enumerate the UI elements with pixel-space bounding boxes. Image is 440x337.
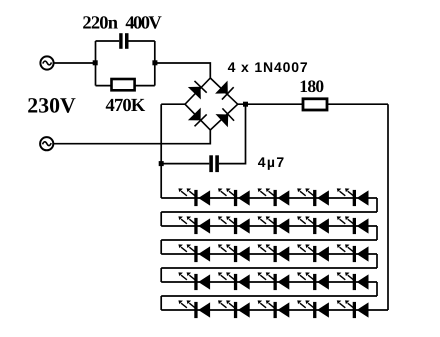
wire AC2 to bridge bottom <box>54 130 211 144</box>
bridge diamond wires <box>185 78 238 130</box>
LED D19 row3 <box>337 244 369 262</box>
wire DC- node to smoothing cap <box>161 163 209 165</box>
LED D9 row1 <box>337 188 369 206</box>
wire LED row 1 <box>161 197 377 199</box>
LED D22 row4 <box>258 272 290 290</box>
AC source top terminal G1 <box>40 56 53 69</box>
junction node DC- at smoothing cap <box>159 161 164 166</box>
junction node left of RC loop <box>93 60 98 65</box>
LED D18 row3 <box>297 244 329 262</box>
LED D24 row4 <box>337 272 369 290</box>
LED D28 row5 <box>297 300 329 318</box>
LED D6 row1 <box>218 188 250 206</box>
AC source bottom terminal G2 <box>40 137 53 150</box>
bridge diode D1 (left-top edge) <box>188 81 207 100</box>
wire right link row4-row5 <box>376 282 378 296</box>
LED D10 row2 <box>178 216 210 234</box>
wire LED row 5 <box>161 309 388 311</box>
LED D25 row5 <box>178 300 210 318</box>
wire LED row 2 <box>161 225 377 227</box>
wire right link row2-row3 <box>376 226 378 240</box>
wire top of RC loop left segment <box>96 40 120 42</box>
wire DC+ node down to smoothing cap <box>219 104 246 163</box>
LED D21 row4 <box>218 272 250 290</box>
wire LED row 3 <box>161 253 377 255</box>
svg-text:4µ7: 4µ7 <box>258 154 286 170</box>
wire bridge left vertex to left vertical <box>161 103 185 105</box>
LED D23 row4 <box>297 272 329 290</box>
LED D8 row1 <box>297 188 329 206</box>
wire LED row 4 <box>161 281 377 283</box>
RC loop left vertical wire <box>95 41 97 86</box>
capacitor C2 4u7 <box>209 155 219 172</box>
svg-text:4 x 1N4007: 4 x 1N4007 <box>228 59 309 75</box>
LED D15 row3 <box>178 244 210 262</box>
wire return line row 5 <box>161 295 377 297</box>
wire right link row1-row2 <box>376 198 378 212</box>
LED string wires <box>161 198 388 310</box>
resistor R2 180 <box>303 99 327 110</box>
wire top of RC loop right segment <box>129 40 155 42</box>
bridge diode D4 (bottom-right edge) <box>216 108 235 127</box>
wire left link row 5 <box>160 296 162 310</box>
wire return line row 4 <box>161 267 377 269</box>
LED D7 row1 <box>258 188 290 206</box>
wire RC to bridge top <box>155 63 211 78</box>
wire right vertical down to LED row 5 <box>387 104 389 310</box>
wire left link row 2 <box>160 212 162 226</box>
LED D5 row1 <box>178 188 210 206</box>
wire left link row 4 <box>160 268 162 282</box>
LED D11 row2 <box>218 216 250 234</box>
junction node right of RC loop <box>152 60 157 65</box>
wire bridge right vertex to resistor <box>238 103 303 105</box>
svg-text:220n: 220n <box>82 13 118 33</box>
LED D27 row5 <box>258 300 290 318</box>
RC loop right vertical wire <box>154 41 156 86</box>
LED D17 row3 <box>258 244 290 262</box>
wire return line row 3 <box>161 239 377 241</box>
wire right link row3-row4 <box>376 254 378 268</box>
bridge diode D2 (top-right edge) <box>215 81 234 100</box>
LED D13 row2 <box>297 216 329 234</box>
wire left link row 3 <box>160 240 162 254</box>
wire resistor to right vertical <box>327 103 388 105</box>
svg-text:400V: 400V <box>125 13 162 33</box>
LED D12 row2 <box>258 216 290 234</box>
svg-text:180: 180 <box>299 76 324 96</box>
LED D29 row5 <box>337 300 369 318</box>
resistor R1 470K <box>112 79 135 90</box>
bridge diode D3 (left-bottom edge) <box>188 108 207 127</box>
svg-text:470K: 470K <box>106 96 146 116</box>
junction node DC+ at bridge right vertex <box>243 102 248 107</box>
capacitor C1 220n/400V <box>119 33 128 49</box>
wire return line row 2 <box>161 211 377 213</box>
LED D16 row3 <box>218 244 250 262</box>
wire bottom of RC loop <box>96 85 155 87</box>
svg-text:230V: 230V <box>27 94 76 118</box>
LED D26 row5 <box>218 300 250 318</box>
LED D14 row2 <box>337 216 369 234</box>
LED D20 row4 <box>178 272 210 290</box>
wire AC1 to RC node <box>54 62 96 64</box>
wire left vertical down to LED row 1 <box>160 104 162 198</box>
